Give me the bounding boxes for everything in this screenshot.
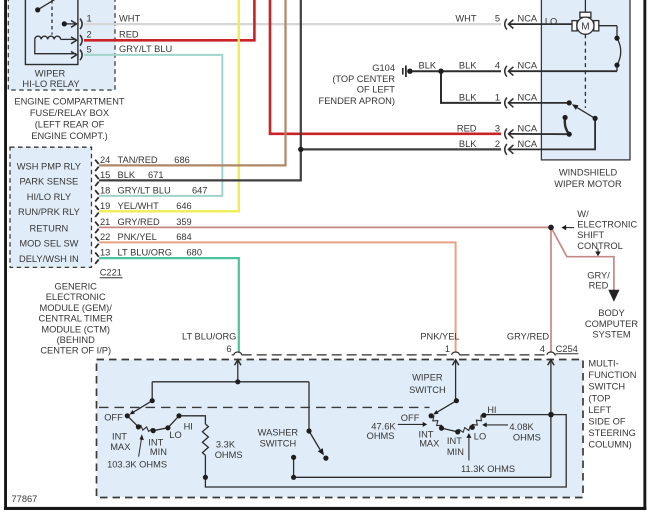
svg-text:FUNCTION: FUNCTION (588, 370, 636, 380)
svg-text:4: 4 (495, 61, 500, 71)
svg-text:SWITCH: SWITCH (260, 438, 297, 448)
svg-text:COMPUTER: COMPUTER (585, 319, 638, 329)
svg-text:HI/LO RLY: HI/LO RLY (27, 192, 71, 202)
svg-text:OFF: OFF (401, 413, 420, 423)
svg-text:HI: HI (184, 422, 193, 432)
svg-text:21: 21 (100, 217, 110, 227)
svg-text:BLK: BLK (118, 170, 136, 180)
svg-text:MODULE (CTM): MODULE (CTM) (41, 324, 110, 334)
svg-text:BLK: BLK (459, 61, 477, 71)
svg-text:1: 1 (495, 92, 500, 102)
svg-text:ENGINE COMPARTMENT: ENGINE COMPARTMENT (14, 97, 125, 107)
svg-text:3: 3 (495, 123, 500, 133)
svg-text:STEERING: STEERING (588, 428, 636, 438)
svg-text:W/: W/ (577, 209, 589, 219)
svg-text:NCA: NCA (518, 139, 538, 149)
svg-text:RETURN: RETURN (30, 223, 69, 233)
svg-text:RED: RED (457, 123, 477, 133)
svg-text:5: 5 (495, 14, 500, 24)
svg-text:684: 684 (176, 232, 192, 242)
svg-text:(LEFT REAR OF: (LEFT REAR OF (35, 120, 105, 130)
svg-text:ENGINE COMPT.): ENGINE COMPT.) (31, 131, 107, 141)
svg-text:HI: HI (487, 405, 496, 415)
svg-text:671: 671 (148, 170, 164, 180)
svg-text:(TOP: (TOP (588, 393, 610, 403)
svg-text:BLK: BLK (459, 92, 477, 102)
svg-text:WINDSHIELD: WINDSHIELD (559, 167, 618, 177)
svg-text:PNK/YEL: PNK/YEL (118, 232, 157, 242)
svg-text:22: 22 (100, 232, 110, 242)
svg-text:11.3K OHMS: 11.3K OHMS (461, 464, 515, 474)
svg-text:FUSE/RELAY BOX: FUSE/RELAY BOX (30, 108, 109, 118)
svg-text:4: 4 (540, 344, 545, 354)
svg-text:INT: INT (148, 437, 163, 447)
svg-text:MULTI-: MULTI- (588, 359, 618, 369)
svg-text:WIPER MOTOR: WIPER MOTOR (554, 179, 622, 189)
svg-text:680: 680 (187, 248, 203, 258)
svg-text:MOD SEL SW: MOD SEL SW (19, 238, 78, 248)
svg-text:MIN: MIN (150, 447, 167, 457)
svg-text:CONTROL: CONTROL (577, 241, 622, 251)
svg-text:OF LEFT: OF LEFT (357, 85, 396, 95)
svg-text:PARK SENSE: PARK SENSE (20, 176, 79, 186)
svg-text:M: M (581, 21, 589, 32)
svg-text:OHMS: OHMS (513, 433, 541, 443)
svg-text:ELECTRONIC: ELECTRONIC (577, 220, 637, 230)
svg-text:1: 1 (445, 344, 450, 354)
svg-text:RED: RED (589, 281, 609, 291)
svg-text:GRY/LT BLU: GRY/LT BLU (118, 185, 171, 195)
svg-text:3.3K: 3.3K (216, 439, 236, 449)
svg-text:19: 19 (100, 201, 110, 211)
svg-text:CENTER OF I/P): CENTER OF I/P) (40, 346, 111, 356)
svg-text:SWITCH: SWITCH (588, 382, 625, 392)
svg-text:SYSTEM: SYSTEM (592, 330, 630, 340)
svg-text:YEL/WHT: YEL/WHT (118, 201, 160, 211)
svg-text:GRY/RED: GRY/RED (507, 332, 549, 342)
svg-text:6: 6 (226, 344, 231, 354)
svg-text:INT: INT (112, 432, 127, 442)
svg-text:NCA: NCA (518, 123, 538, 133)
svg-text:C221: C221 (100, 268, 122, 278)
svg-text:13: 13 (100, 248, 110, 258)
svg-text:C254: C254 (556, 344, 578, 354)
svg-text:103.3K OHMS: 103.3K OHMS (107, 460, 167, 470)
svg-text:INT: INT (447, 436, 462, 446)
svg-text:4.08K: 4.08K (509, 422, 534, 432)
svg-text:SWITCH: SWITCH (409, 385, 446, 395)
svg-text:FENDER APRON): FENDER APRON) (319, 96, 395, 106)
svg-text:24: 24 (100, 155, 110, 165)
svg-text:GRY/: GRY/ (587, 270, 610, 280)
svg-text:MAX: MAX (110, 442, 130, 452)
svg-text:LO: LO (545, 17, 557, 27)
svg-text:LT BLU/ORG: LT BLU/ORG (118, 248, 172, 258)
svg-text:OHMS: OHMS (215, 450, 243, 460)
svg-text:MAX: MAX (419, 438, 439, 448)
svg-text:18: 18 (100, 185, 110, 195)
svg-text:2: 2 (87, 30, 92, 40)
svg-text:TAN/RED: TAN/RED (118, 155, 158, 165)
svg-text:COLUMN): COLUMN) (588, 440, 631, 450)
svg-text:LT BLU/ORG: LT BLU/ORG (182, 332, 236, 342)
svg-text:BODY: BODY (598, 308, 624, 318)
svg-text:BLK: BLK (419, 61, 437, 71)
svg-text:WSH PMP RLY: WSH PMP RLY (17, 161, 81, 171)
svg-text:OFF: OFF (104, 413, 123, 423)
svg-text:BLK: BLK (459, 139, 477, 149)
svg-text:WIPER: WIPER (35, 68, 66, 78)
svg-text:77867: 77867 (12, 494, 38, 504)
svg-text:NCA: NCA (518, 61, 538, 71)
svg-text:GENERIC: GENERIC (55, 282, 98, 292)
svg-text:LO: LO (169, 430, 181, 440)
svg-text:LO: LO (474, 431, 486, 441)
svg-text:OHMS: OHMS (367, 431, 395, 441)
svg-text:LEFT: LEFT (588, 405, 611, 415)
svg-text:WHT: WHT (119, 13, 140, 23)
svg-text:(TOP CENTER: (TOP CENTER (332, 74, 395, 84)
svg-text:NCA: NCA (518, 92, 538, 102)
svg-text:G104: G104 (372, 63, 395, 73)
svg-text:647: 647 (192, 185, 208, 195)
svg-text:CENTRAL TIMER: CENTRAL TIMER (39, 314, 114, 324)
svg-text:PNK/YEL: PNK/YEL (420, 332, 459, 342)
svg-text:MODULE (GEM)/: MODULE (GEM)/ (40, 303, 113, 313)
svg-text:5: 5 (87, 44, 92, 54)
svg-text:(BEHIND: (BEHIND (57, 335, 96, 345)
svg-text:MIN: MIN (447, 447, 464, 457)
svg-text:WHT: WHT (455, 14, 476, 24)
svg-text:NCA: NCA (518, 14, 538, 24)
svg-text:GRY/RED: GRY/RED (118, 217, 160, 227)
svg-text:1: 1 (87, 13, 92, 23)
svg-text:HI-LO RELAY: HI-LO RELAY (22, 79, 79, 89)
svg-text:DELY/WSH IN: DELY/WSH IN (19, 254, 79, 264)
svg-text:WIPER: WIPER (412, 373, 443, 383)
svg-text:359: 359 (176, 217, 192, 227)
svg-text:GRY/LT BLU: GRY/LT BLU (119, 44, 172, 54)
svg-text:SIDE OF: SIDE OF (588, 417, 626, 427)
svg-text:WASHER: WASHER (258, 427, 299, 437)
svg-text:686: 686 (174, 155, 190, 165)
svg-text:RUN/PRK RLY: RUN/PRK RLY (18, 207, 80, 217)
svg-text:15: 15 (100, 170, 110, 180)
svg-text:RED: RED (119, 30, 139, 40)
svg-text:2: 2 (495, 139, 500, 149)
svg-text:646: 646 (176, 201, 192, 211)
svg-text:SHIFT: SHIFT (577, 230, 604, 240)
svg-text:ELECTRONIC: ELECTRONIC (46, 292, 106, 302)
svg-text:47.6K: 47.6K (371, 421, 396, 431)
